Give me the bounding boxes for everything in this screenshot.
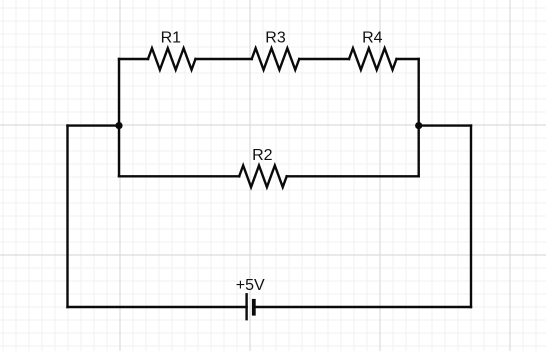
- svg-text:R4: R4: [362, 30, 383, 47]
- wire left inner vertical: [118, 59, 120, 176]
- resistor R3: [252, 48, 300, 70]
- battery V1 positive plate: [245, 293, 247, 320]
- wire battery to bottom right: [256, 306, 472, 308]
- wire right inner vertical: [418, 59, 420, 176]
- resistor R2: [239, 166, 287, 188]
- svg-text:R1: R1: [161, 30, 182, 47]
- wire outer right vertical: [470, 126, 472, 307]
- wire middle branch left (node A to R2): [119, 175, 239, 177]
- wire R3 to R4: [299, 58, 349, 60]
- wire left stub node A: [68, 124, 120, 126]
- node B junction dot: [415, 122, 422, 129]
- wire middle branch right (R2 to node B): [287, 175, 419, 177]
- wire R1 to R3: [196, 58, 252, 60]
- resistor R4: [349, 48, 397, 70]
- node A junction dot: [115, 122, 122, 129]
- wire top-left corner to R1: [119, 58, 148, 60]
- svg-text:+5V: +5V: [236, 277, 265, 294]
- battery V1 negative plate: [252, 299, 256, 316]
- resistor R1: [148, 48, 196, 70]
- wire right stub node B: [419, 124, 471, 126]
- svg-text:R2: R2: [252, 147, 273, 164]
- wire bottom left to battery: [68, 306, 247, 308]
- svg-text:R3: R3: [265, 30, 286, 47]
- wire R4 to top-right corner: [397, 58, 419, 60]
- wire outer left vertical: [66, 126, 68, 307]
